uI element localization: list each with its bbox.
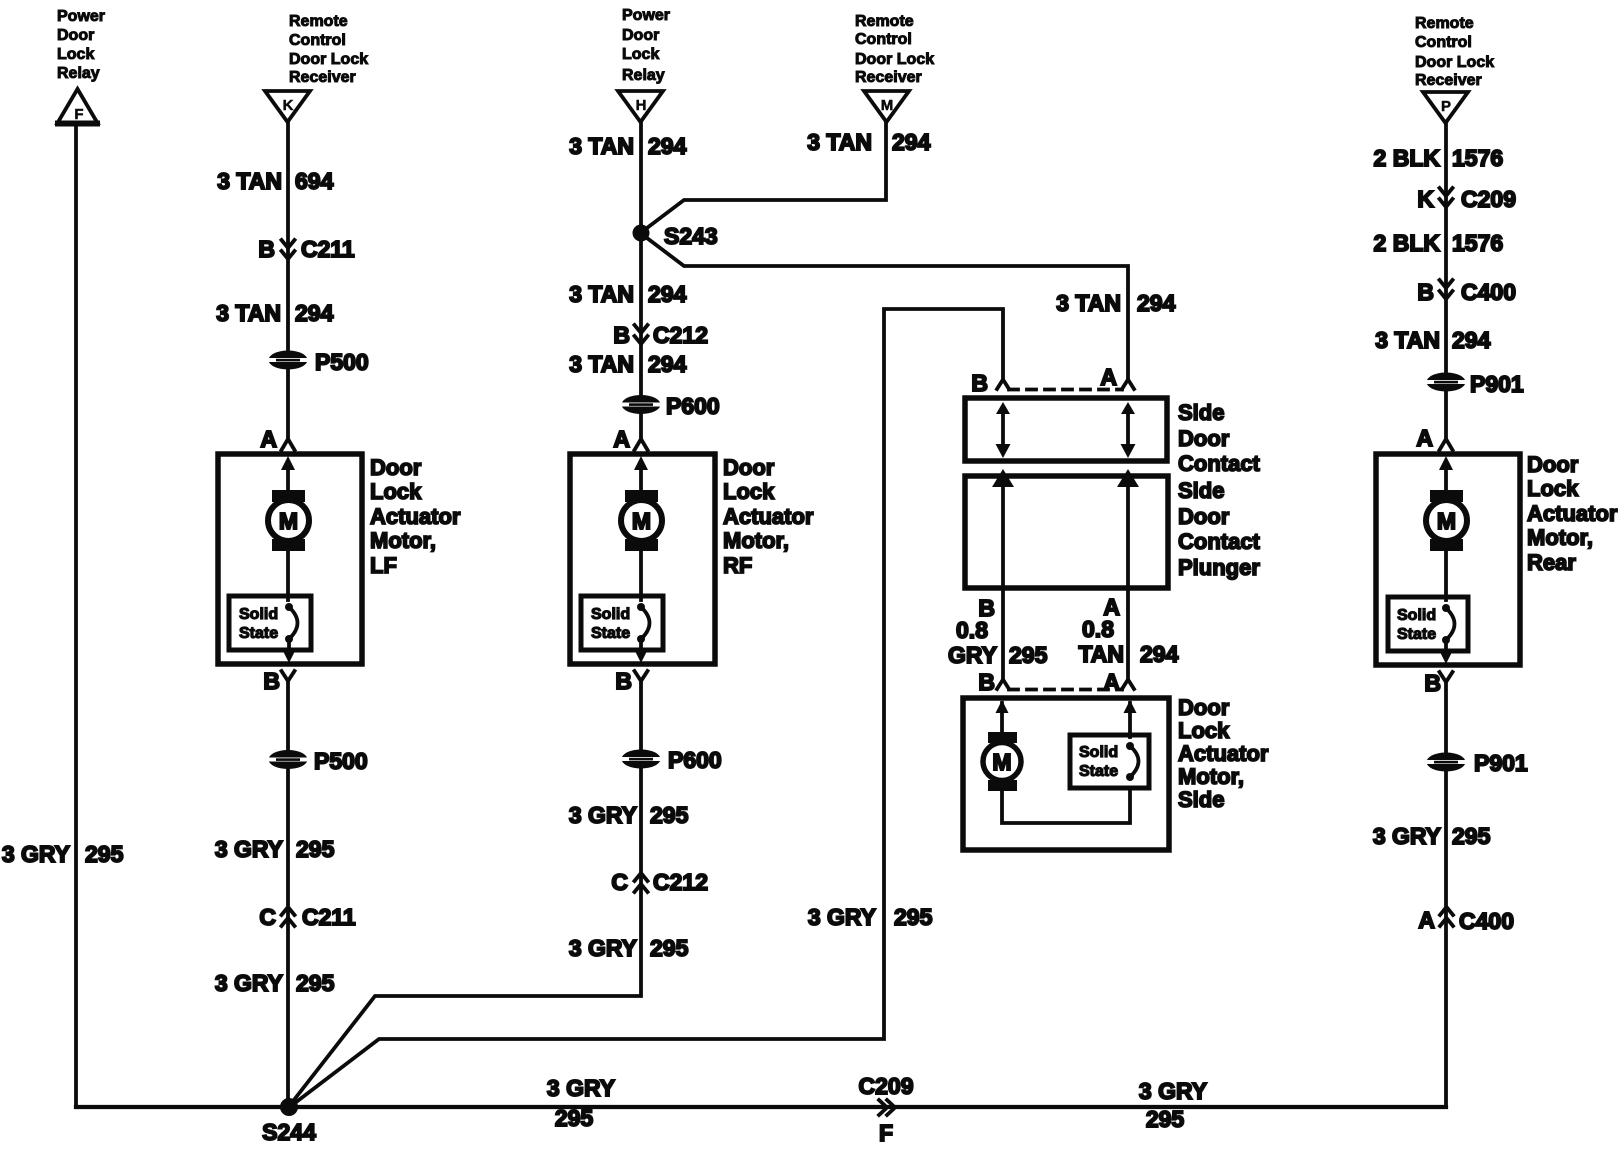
connector C212 pin C (double chevron up) [611,869,708,895]
svg-text:Actuator: Actuator [1178,741,1269,766]
arrow down through LF box bottom [282,639,296,663]
svg-text:C211: C211 [301,236,355,262]
svg-text:A: A [613,426,630,452]
svg-text:Solid: Solid [1397,607,1436,624]
svg-text:295: 295 [1146,1106,1185,1132]
svg-text:Motor,: Motor, [370,528,436,553]
svg-text:Actuator: Actuator [1527,501,1618,526]
svg-text:C400: C400 [1461,279,1516,305]
component box: Door Lock Actuator Motor Side [963,698,1169,850]
label: Power Door Lock Relay [622,7,670,84]
svg-text:A: A [260,426,277,452]
svg-text:S244: S244 [262,1119,316,1145]
solid state switch box (side) [1070,735,1149,788]
pin B of RF actuator (fork) + wire down [615,668,647,694]
wire label 0.8 GRY 295 [948,617,1048,668]
svg-text:Contact: Contact [1178,529,1261,554]
inline connector P901 [1427,371,1524,397]
svg-text:S243: S243 [664,223,718,249]
component box: Side Door Contact Plunger [965,476,1168,588]
svg-text:3 GRY: 3 GRY [1373,823,1441,849]
svg-text:Receiver: Receiver [1415,72,1482,89]
svg-text:Door: Door [370,455,422,480]
svg-text:F: F [74,106,83,123]
svg-text:3 TAN: 3 TAN [569,351,634,377]
svg-text:Motor,: Motor, [1527,525,1593,550]
wires below plunger to side actuator [1003,588,1128,679]
motor M (RF) [621,490,662,551]
label: Door Lock Actuator Motor, Side [1178,695,1269,812]
svg-text:Lock: Lock [57,46,94,63]
svg-text:Control: Control [855,31,912,48]
wire label 3 GRY 295 (x884 riser) [808,904,933,930]
arrow up inside RF box top [634,456,648,492]
svg-text:GRY: GRY [948,642,997,668]
label: Power Door Lock Relay [57,8,105,82]
svg-text:K: K [283,97,294,114]
svg-text:Solid: Solid [591,606,630,623]
label: Remote Control Door Lock Receiver [289,13,368,86]
svg-text:Control: Control [289,32,346,49]
svg-text:Side: Side [1178,400,1224,425]
svg-text:M: M [632,508,651,534]
svg-text:Door: Door [622,27,659,44]
svg-text:Door Lock: Door Lock [289,51,368,68]
svg-text:Door: Door [1178,695,1230,720]
wire label 3 GRY 295 [215,836,335,862]
wire: K receiver down to LF actuator pin A [286,122,290,440]
svg-text:B: B [263,668,280,694]
svg-text:3 TAN: 3 TAN [1056,290,1121,316]
svg-text:Side: Side [1178,787,1224,812]
svg-text:Relay: Relay [622,67,665,84]
component box: Door Lock Actuator Motor LF [218,454,362,664]
wire label 2 BLK 1576 [1374,145,1504,171]
svg-text:A: A [1418,907,1435,933]
wire label 3 GRY 295 [215,970,335,996]
svg-text:3 TAN: 3 TAN [569,133,634,159]
svg-text:C400: C400 [1459,908,1514,934]
pin B of LF actuator (fork) + wire down [263,668,294,694]
svg-text:B: B [1417,279,1434,305]
svg-text:1576: 1576 [1452,230,1503,256]
off-page connector P (triangle, apex down) [1423,92,1468,123]
connector C400 pin A (double chevron up) [1418,907,1514,934]
wire: F relay down to bottom bus (3 GRY 295) [74,125,78,1107]
svg-text:3 TAN: 3 TAN [217,168,282,194]
svg-text:295: 295 [555,1105,594,1131]
arrow down through Rear box bottom [1439,640,1453,664]
svg-text:294: 294 [1140,641,1179,667]
svg-text:C209: C209 [1461,186,1516,212]
svg-text:Plunger: Plunger [1178,555,1260,580]
svg-text:Lock: Lock [1527,476,1579,501]
connector C211 pin C (double chevron up) [259,904,356,930]
svg-text:P500: P500 [314,748,368,774]
svg-text:Door: Door [1178,504,1230,529]
svg-text:294: 294 [1137,290,1176,316]
svg-text:295: 295 [85,841,124,867]
label: Door Lock Actuator Motor, RF [723,455,814,578]
svg-text:2 BLK: 2 BLK [1374,230,1441,256]
label: Side Door Contact Plunger [1178,478,1261,580]
svg-text:RF: RF [723,553,752,578]
svg-text:1576: 1576 [1452,145,1503,171]
svg-text:A: A [1103,669,1120,695]
svg-text:B: B [978,669,995,695]
inline connector P500 (lower) [269,748,368,774]
svg-text:295: 295 [296,970,335,996]
svg-text:State: State [591,625,630,642]
svg-text:B: B [1424,670,1441,696]
svg-text:Power: Power [57,8,105,25]
wire label 3 TAN 294 (receiver M) [807,129,930,155]
svg-text:Remote: Remote [289,13,348,30]
svg-text:B: B [615,668,632,694]
svg-text:3 GRY: 3 GRY [808,904,876,930]
svg-text:State: State [1079,763,1118,780]
svg-text:294: 294 [295,300,334,326]
svg-text:Motor,: Motor, [1178,764,1244,789]
label: Side Door Contact [1178,400,1261,476]
label: Door Lock Actuator Motor, LF [370,455,461,578]
svg-text:LF: LF [370,553,397,578]
svg-text:C211: C211 [302,904,356,930]
wire label 3 TAN 294 [569,133,686,159]
svg-text:295: 295 [894,904,933,930]
svg-text:M: M [881,97,894,114]
svg-text:State: State [239,625,278,642]
svg-text:294: 294 [892,129,931,155]
wire label 3 TAN 294 (side door contact feed) [1056,290,1175,316]
svg-text:3 TAN: 3 TAN [1375,327,1440,353]
pin B of Rear actuator (fork) + wire down [1424,670,1452,696]
wire: S243 branch up-right to receiver M [643,122,886,231]
wire label 3 TAN 694 [217,168,333,194]
svg-text:P600: P600 [666,393,720,419]
connector C211 pin B (double chevron down) [258,236,355,262]
svg-text:C212: C212 [653,869,708,895]
svg-text:Door: Door [57,27,94,44]
wire label 2 BLK 1576 [1374,230,1504,256]
svg-text:2 BLK: 2 BLK [1374,145,1441,171]
svg-text:Remote: Remote [1415,15,1474,32]
arrow up inside Rear box top [1439,456,1453,492]
inline connector P500 [269,349,369,375]
arrow up inside LF box top [281,456,295,492]
svg-text:A: A [1416,425,1433,451]
wire: side contact pin B up-left-down to S244 (3 GRY 295) [291,309,1003,1106]
off-page connector F (triangle, apex up) [55,89,100,124]
svg-text:3 TAN: 3 TAN [569,281,634,307]
svg-text:P: P [1441,98,1451,115]
svg-text:294: 294 [1452,327,1491,353]
wire: H relay down to RF actuator pin A [639,122,643,440]
connector C400 pin B (double chevron down) [1417,279,1516,305]
svg-text:B: B [971,370,988,396]
svg-text:Actuator: Actuator [370,504,461,529]
svg-text:295: 295 [650,802,689,828]
solid state switch box (RF) [581,596,663,650]
wire label 3 GRY 295 [569,802,689,828]
svg-text:3 GRY: 3 GRY [569,802,637,828]
wire: S243 branch down-right to side door contact pin A [643,235,1128,380]
svg-text:B: B [258,236,275,262]
svg-text:TAN: TAN [1078,641,1124,667]
svg-text:Side: Side [1178,478,1224,503]
wire label 3 TAN 294 [569,351,686,377]
inline connector P600 (lower) [622,747,722,773]
svg-text:Lock: Lock [723,479,775,504]
inline connector P901 (lower) [1427,750,1528,776]
svg-text:K: K [1417,186,1434,212]
svg-text:Motor,: Motor, [723,528,789,553]
splice S243 [633,223,718,249]
inline connector P600 [622,393,720,419]
wire label 3 GRY 295 [569,935,689,961]
svg-text:3 GRY: 3 GRY [547,1075,615,1101]
svg-text:P500: P500 [315,349,369,375]
pin A of RF actuator (fork) [613,426,647,452]
solid state switch box (LF) [229,596,311,650]
svg-text:3 TAN: 3 TAN [216,300,281,326]
svg-text:Solid: Solid [239,606,278,623]
wire label 0.8 TAN 294 [1078,616,1178,667]
svg-text:Actuator: Actuator [723,504,814,529]
svg-text:Remote: Remote [855,13,914,30]
component box: Door Lock Actuator Motor RF [570,454,715,664]
wire: motor bottom link to solid state bottom (side) [1002,788,1130,823]
svg-text:0.8: 0.8 [1082,616,1114,642]
wire label 3 GRY 295 (bus right of C209) [1139,1078,1207,1132]
svg-text:Control: Control [1415,34,1472,51]
component box: Side Door Contact [965,398,1167,461]
solid state switch box (Rear) [1388,597,1468,651]
svg-text:295: 295 [1009,642,1048,668]
svg-text:C212: C212 [653,322,708,348]
svg-text:3 GRY: 3 GRY [1139,1078,1207,1104]
wire motor to solid state (Rear) [1444,551,1448,600]
wire: RF actuator B down, left, diagonal to S244 [290,681,641,1105]
wire label 3 GRY 295 (left column) [2,841,124,867]
svg-text:3 GRY: 3 GRY [569,935,637,961]
svg-text:B: B [613,322,630,348]
svg-text:3 TAN: 3 TAN [807,129,872,155]
svg-text:Receiver: Receiver [289,69,356,86]
svg-text:694: 694 [295,168,334,194]
label: Remote Control Door Lock Receiver [1415,15,1494,89]
svg-text:P901: P901 [1470,371,1524,397]
motor M (side) [983,732,1021,791]
component box: Door Lock Actuator Motor Rear [1376,454,1520,665]
svg-text:3 GRY: 3 GRY [215,836,283,862]
svg-text:Door Lock: Door Lock [1415,54,1494,71]
svg-text:M: M [992,749,1011,775]
svg-text:H: H [636,97,647,114]
pin labels B / A below plunger [978,594,1120,621]
motor M (LF) [268,490,309,551]
wire label 3 GRY 295 (right column) [1373,823,1491,849]
svg-text:Lock: Lock [622,46,659,63]
wire label 3 TAN 294 [569,281,686,307]
wire label 3 TAN 294 [1375,327,1490,353]
svg-text:Receiver: Receiver [855,69,922,86]
svg-text:C209: C209 [859,1073,914,1099]
in-line connector C209 pin F on bus (double chevron right) [859,1073,914,1146]
double-headed arrows inside contact box [996,402,1136,458]
wire motor to solid state (LF) [286,551,290,600]
svg-text:294: 294 [648,351,687,377]
svg-text:294: 294 [648,281,687,307]
wire motor to solid state (RF) [639,551,643,600]
svg-text:294: 294 [648,133,687,159]
svg-text:M: M [279,508,298,534]
svg-text:P901: P901 [1474,750,1528,776]
svg-text:Door: Door [723,455,775,480]
wire: Rear actuator B down to bus corner [1444,682,1448,1107]
svg-text:Lock: Lock [1178,718,1230,743]
connector C212 pin B (double chevron down) [613,322,708,348]
label: Remote Control Door Lock Receiver [855,13,934,86]
svg-text:Contact: Contact [1178,451,1261,476]
svg-text:3 GRY: 3 GRY [215,970,283,996]
svg-text:F: F [879,1120,893,1146]
svg-text:C: C [611,869,628,895]
off-page connector H (triangle, apex down) [618,91,663,122]
svg-text:295: 295 [1452,823,1491,849]
off-page connector K (triangle, apex down) [265,91,310,122]
wire label 3 TAN 294 [216,300,333,326]
svg-text:Lock: Lock [370,479,422,504]
wire label 3 GRY 295 (bus left of C209) [547,1075,615,1131]
arrow down through RF box bottom [634,639,648,663]
splice S244 [262,1098,316,1145]
connector pins B / A above side door contact (forks + dashed line) [971,364,1134,396]
wire: P receiver down to Rear actuator pin A [1444,123,1448,440]
svg-text:Rear: Rear [1527,550,1576,575]
off-page connector M (triangle, apex down) [864,91,909,122]
arrows up inside side actuator box [996,700,1137,737]
wire: ground bus 3 GRY 295 [76,1105,1446,1109]
svg-text:P600: P600 [668,747,722,773]
pin A of LF actuator (fork) [260,426,294,452]
svg-text:Solid: Solid [1079,744,1118,761]
svg-text:Door: Door [1178,426,1230,451]
svg-text:M: M [1437,508,1456,534]
svg-text:Door Lock: Door Lock [855,51,934,68]
wire: LF actuator B down to S244 [286,681,290,1107]
svg-text:A: A [1100,364,1117,390]
motor M (Rear) [1426,490,1467,551]
svg-text:3 GRY: 3 GRY [2,841,70,867]
svg-text:Relay: Relay [57,65,100,82]
svg-text:C: C [259,904,276,930]
svg-text:295: 295 [296,836,335,862]
label: Door Lock Actuator Motor, Rear [1527,452,1618,575]
pin A of Rear actuator (fork) [1416,425,1452,451]
svg-text:Door: Door [1527,452,1579,477]
svg-text:Power: Power [622,7,670,24]
connector pins B / A into side actuator (forks + dashed line) [978,669,1134,695]
plunger contacts (solid triangles) + wires down [992,469,1139,588]
svg-text:State: State [1397,626,1436,643]
svg-text:295: 295 [650,935,689,961]
svg-text:0.8: 0.8 [956,617,988,643]
connector C209 pin K (double chevron down) [1417,186,1516,212]
